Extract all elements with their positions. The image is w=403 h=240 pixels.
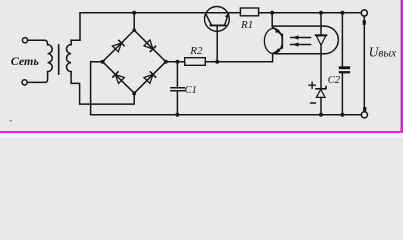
transistor VT1 base lead	[216, 26, 218, 62]
plus sign near VD2	[309, 82, 315, 88]
junction dot bridge bottom	[132, 91, 136, 95]
wire bridge right to R2	[166, 61, 185, 63]
opto phototransistor emitter arrow	[275, 48, 280, 52]
magenta border bottom	[0, 131, 403, 133]
optocoupler U1 light arrow 2 line	[291, 44, 311, 46]
wire primary top lead	[28, 40, 48, 44]
transistor VT1 body	[205, 7, 230, 32]
diode bridge frame	[103, 30, 166, 93]
LED VD1 cathode lead down	[320, 45, 322, 88]
LED VD1 triangle	[316, 36, 325, 45]
scan artifact dash	[10, 120, 13, 122]
junction dot opto collector on rail	[270, 11, 274, 15]
optocoupler U1 phototransistor collector drop	[272, 13, 282, 35]
wire bridge top riser	[133, 13, 135, 30]
capacitor C2 top plate thick	[339, 66, 350, 69]
wire secondary top lead	[70, 40, 72, 44]
bridge diode D4 lower-right	[144, 71, 156, 83]
bridge diode D2 upper-right	[144, 40, 156, 52]
junction dot C2 bottom	[340, 113, 344, 117]
svg-text:C1: C1	[185, 85, 197, 96]
background	[0, 0, 1, 1]
resistor R1	[240, 8, 258, 16]
magenta border right	[401, 0, 403, 131]
capacitor C1 top lead	[176, 62, 178, 87]
junction dot LED on rail	[319, 11, 323, 15]
transformer T1 primary winding	[48, 45, 53, 72]
resistor R2	[185, 58, 206, 66]
transistor VT1 bottom bar	[211, 24, 226, 26]
svg-text:Uвых: Uвых	[369, 45, 398, 60]
capacitor C2 bottom plate thick	[339, 71, 350, 73]
capacitor C1 bottom lead	[176, 92, 178, 115]
opto phototransistor collector arrow	[275, 29, 279, 33]
wire output vertical	[363, 16, 365, 112]
transistor VT1 emitter arrow	[225, 14, 228, 18]
transistor VT1 left leg	[205, 13, 211, 25]
transformer T1 core	[58, 45, 60, 74]
svg-text:Сеть: Сеть	[11, 54, 40, 68]
transformer T1 primary terminal bottom	[22, 80, 27, 85]
junction dot C2 on rail	[340, 11, 344, 15]
wire top rail right of R1	[259, 12, 362, 14]
wire secondary-top riser	[71, 13, 80, 40]
optocoupler U1 receiver ellipse	[264, 28, 282, 53]
junction dot C1 top	[175, 60, 179, 64]
optocoupler U1 phototransistor emitter leg	[274, 48, 283, 54]
zener VD2 anode lead	[320, 97, 322, 114]
output terminal top	[361, 10, 367, 16]
minus sign near VD2	[311, 102, 316, 104]
svg-text:R1: R1	[240, 19, 253, 31]
polarity square top	[363, 20, 366, 25]
polarity square bottom	[363, 107, 366, 111]
output terminal bottom	[361, 112, 367, 118]
transistor VT1 right leg	[225, 13, 229, 25]
zener VD2 triangle	[316, 89, 325, 97]
junction dot base node	[215, 60, 219, 64]
optocoupler U1 body	[272, 26, 338, 54]
light arrow head 1	[293, 35, 299, 39]
light strip below magenta	[0, 133, 403, 137]
wire secondary bottom lead	[71, 72, 134, 105]
zener VD2 cathode bar with tick	[316, 87, 326, 89]
optocoupler U1 phototransistor base bar	[281, 35, 283, 48]
junction dot VD2 bottom	[319, 113, 323, 117]
bridge diode D1 upper-left	[112, 40, 124, 52]
junction dot rail/bridge	[132, 11, 136, 15]
junction dot bridge left	[101, 60, 105, 64]
capacitor C2 bottom lead	[341, 74, 343, 115]
capacitor C1 plates	[171, 88, 184, 91]
transformer T1 primary terminal top	[22, 38, 27, 43]
capacitor C2 top lead	[341, 13, 343, 66]
optocoupler U1 light arrow 1 line	[291, 37, 311, 39]
light arrow head 2	[293, 42, 299, 46]
svg-text:C2: C2	[328, 75, 341, 86]
junction dot bridge top corner	[133, 28, 136, 31]
wire primary bottom lead	[27, 72, 47, 83]
junction dot bridge right	[164, 60, 168, 64]
LED VD1 top bar	[316, 34, 327, 36]
transformer T1 secondary winding	[67, 45, 72, 72]
bridge diode D3 lower-left	[112, 71, 124, 83]
wire top rail left	[80, 12, 240, 14]
wire bottom rail	[91, 114, 362, 116]
LED VD1 anode lead	[320, 13, 322, 35]
wire R2 to optocoupler emitter	[205, 53, 272, 61]
junction dot C1 bottom	[175, 113, 179, 117]
wire bridge left corner to bottom rail	[91, 62, 103, 115]
svg-text:R2: R2	[189, 45, 203, 57]
